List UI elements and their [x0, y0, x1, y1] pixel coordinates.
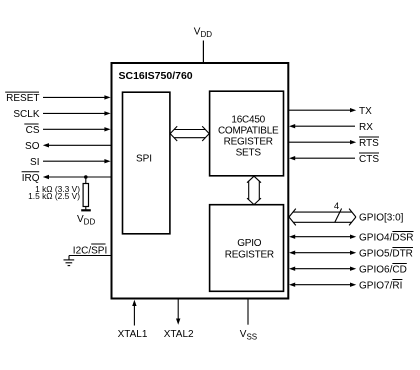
16C450 compatible register sets block — [210, 91, 284, 176]
bidirectional open arrow SPI to 16C450 — [170, 126, 209, 141]
chip outer box SC16IS750/760 — [112, 63, 289, 299]
svg-text:1.5 kΩ (2.5 V): 1.5 kΩ (2.5 V) — [28, 191, 80, 201]
wire VSS — [247, 300, 249, 325]
CD overline — [392, 263, 406, 265]
RI overline — [392, 279, 402, 281]
svg-text:SCLK: SCLK — [13, 109, 39, 120]
CS overline — [24, 123, 38, 125]
wire TX (output, arrow right) — [289, 109, 351, 111]
wire IRQ (output, arrow to the left) — [48, 176, 111, 178]
wire SCLK — [43, 112, 105, 114]
resistor pull-up (1 kOhm / 1.5 kOhm) — [83, 184, 88, 207]
RTS overline — [359, 136, 379, 138]
wire resistor to VDD rail — [85, 207, 87, 210]
overline over SPI part — [91, 243, 105, 245]
wire XTAL1 (input, arrow up into box) — [133, 305, 135, 326]
wire GPIO7 (bidirectional) — [293, 284, 351, 286]
16C450 block label — [218, 114, 279, 158]
wire I2C/SPI to ground — [69, 255, 111, 257]
svg-text:COMPATIBLE: COMPATIBLE — [218, 125, 279, 136]
wire GPIO4 (bidirectional) — [293, 236, 351, 238]
svg-text:IRQ: IRQ — [22, 173, 40, 184]
wire GPIO6 (bidirectional) — [293, 268, 351, 270]
svg-text:GPIO[3:0]: GPIO[3:0] — [359, 213, 404, 224]
node junction on IRQ wire — [84, 175, 88, 179]
CTS overline — [359, 152, 379, 154]
wire XTAL2 (output, arrow down) — [177, 300, 179, 320]
wire junction to resistor — [85, 177, 87, 184]
svg-text:GPIO7/RI: GPIO7/RI — [359, 280, 402, 291]
wire RTS (output, arrow right) — [289, 141, 351, 143]
SPI block — [123, 92, 170, 234]
svg-text:SC16IS750/760: SC16IS750/760 — [119, 70, 193, 82]
wire CTS (input, arrow into box) — [294, 157, 355, 159]
wire RESET — [43, 96, 105, 98]
svg-text:SO: SO — [25, 141, 40, 152]
svg-text:REGISTER: REGISTER — [224, 136, 273, 147]
IRQ overline — [22, 171, 40, 173]
svg-text:SI: SI — [30, 157, 39, 168]
bidirectional open arrow 16C450 to GPIO register — [247, 176, 261, 204]
wire GPIO5 (bidirectional) — [293, 252, 351, 254]
svg-text:TX: TX — [359, 106, 372, 117]
svg-text:4: 4 — [334, 201, 339, 212]
svg-text:GPIO4/DSR: GPIO4/DSR — [359, 232, 413, 243]
svg-text:GPIO: GPIO — [237, 238, 261, 249]
svg-text:GPIO6/CD: GPIO6/CD — [359, 264, 407, 275]
DTR overline — [392, 247, 413, 249]
svg-text:REGISTER: REGISTER — [225, 249, 274, 260]
wire SO (output, arrow to the left) — [48, 144, 111, 146]
RESET overline — [5, 91, 39, 93]
wire RX (input, arrow into box) — [294, 125, 355, 127]
svg-text:CTS: CTS — [359, 154, 379, 165]
svg-text:16C450: 16C450 — [231, 114, 265, 125]
VDD rail bar — [81, 209, 91, 211]
svg-text:SETS: SETS — [236, 148, 262, 159]
VDD top wire — [202, 41, 204, 64]
bus width slash — [335, 209, 342, 223]
GPIO register block — [210, 205, 284, 292]
svg-text:RTS: RTS — [359, 138, 379, 149]
svg-text:SPI: SPI — [136, 153, 152, 164]
svg-text:RX: RX — [359, 122, 373, 133]
svg-text:I2C/SPI: I2C/SPI — [73, 245, 107, 256]
wire SI — [43, 160, 105, 162]
svg-text:CS: CS — [26, 125, 40, 136]
ground symbol — [64, 256, 75, 266]
svg-text:GPIO5/DTR: GPIO5/DTR — [359, 248, 413, 259]
GPIO block label — [225, 238, 274, 260]
svg-text:XTAL1: XTAL1 — [118, 329, 148, 340]
svg-text:XTAL2: XTAL2 — [164, 329, 194, 340]
GPIO[3:0] bus open double arrow — [289, 209, 356, 226]
DSR overline — [392, 231, 413, 233]
svg-text:RESET: RESET — [6, 93, 39, 104]
wire CS — [43, 128, 105, 130]
